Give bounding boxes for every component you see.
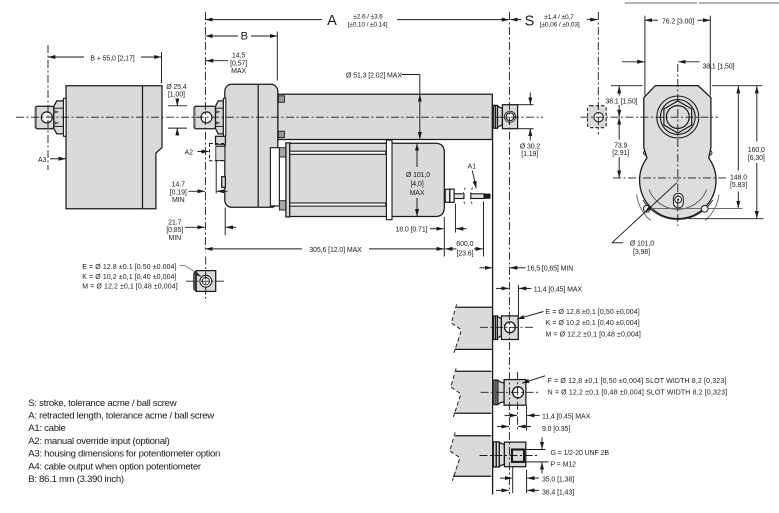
svg-text:A3: A3	[38, 157, 47, 164]
svg-text:160,0: 160,0	[748, 147, 765, 154]
manual override tab on housing	[222, 177, 226, 188]
svg-text:[4,0]: [4,0]	[410, 181, 423, 188]
svg-text:G = 1/2-20 UNF 2B: G = 1/2-20 UNF 2B	[551, 450, 610, 457]
svg-text:76.2 [3.00]: 76.2 [3.00]	[662, 19, 694, 26]
svg-text:21.7: 21.7	[168, 219, 181, 226]
front view horizontal centerline hex	[581, 116, 719, 118]
svg-text:Ø 51,3 [2.02] MAX: Ø 51,3 [2.02] MAX	[346, 72, 402, 79]
svg-text:E = Ø 12,8 ±0,1 [0,50 ±0,004]: E = Ø 12,8 ±0,1 [0,50 ±0,004]	[546, 309, 640, 316]
leader arrowhead into square	[195, 271, 202, 277]
dimension diameter 101,0 motor	[406, 143, 430, 216]
rod face extension line full height	[492, 105, 494, 494]
svg-text:14,5: 14,5	[232, 53, 245, 60]
leader to square	[180, 266, 197, 273]
dimension B	[205, 30, 277, 80]
tapped hole G/P	[512, 450, 524, 462]
slotted head v2	[504, 380, 526, 406]
rings v2	[494, 380, 496, 405]
dimension 600,0 cable	[445, 202, 483, 258]
square crosshair	[186, 280, 224, 282]
gearbox housing	[225, 84, 278, 207]
motor tie rod top	[290, 151, 386, 154]
dimension 76.2	[645, 16, 710, 96]
motor front ring	[286, 143, 290, 217]
svg-text:A1: cable: A1: cable	[28, 423, 65, 434]
dimension B + 55,0	[48, 52, 162, 83]
svg-text:M = Ø 12,2 ±0,1 [0,48 ±0,004]: M = Ø 12,2 ±0,1 [0,48 ±0,004]	[82, 284, 177, 291]
tube clamp bolts	[278, 96, 284, 103]
svg-text:148.0: 148.0	[730, 174, 747, 181]
rod end variant 1 E/K/M	[451, 304, 543, 353]
svg-text:[0,85]: [0,85]	[166, 227, 183, 234]
front view vertical centerline	[677, 64, 679, 226]
dimension P thread	[524, 461, 549, 463]
svg-text:±2.6 / ±3.6: ±2.6 / ±3.6	[353, 14, 383, 21]
dimension 148.0	[730, 86, 747, 208]
svg-text:A1: A1	[468, 163, 477, 170]
counter bearing dashed square	[588, 106, 607, 128]
dimension 11,4 lower	[505, 414, 518, 416]
clevis hole view1	[41, 112, 52, 123]
gearbox face line	[257, 85, 259, 207]
leader v2	[522, 376, 545, 383]
motor bolt top	[279, 148, 286, 157]
dimension 38,1 top	[622, 62, 735, 71]
mounting face chord line	[648, 208, 743, 210]
svg-text:K = Ø 10,2 ±0,1 [0,40 ±0,004]: K = Ø 10,2 ±0,1 [0,40 ±0,004]	[82, 274, 176, 281]
taper v2	[498, 381, 504, 404]
svg-text:14.7: 14.7	[172, 182, 185, 189]
svg-text:36,4 [1,43]: 36,4 [1,43]	[542, 490, 574, 497]
hex nut	[664, 101, 692, 133]
svg-text:K = Ø 10,2 ±0,1 [0,40 ±0,004]: K = Ø 10,2 ±0,1 [0,40 ±0,004]	[546, 320, 640, 327]
dimension 16,5 MIN	[480, 266, 574, 273]
svg-text:[±0,06 / ±0,03]: [±0,06 / ±0,03]	[540, 22, 580, 29]
taper v1	[497, 317, 501, 338]
svg-text:600,0: 600,0	[456, 241, 473, 248]
washer view2	[223, 98, 225, 136]
piston rod end: rings	[493, 105, 495, 128]
svg-text:F = Ø 12,8 ±0,1 [0,50 ±0,004]: F = Ø 12,8 ±0,1 [0,50 ±0,004] SLOT WIDTH…	[548, 378, 727, 385]
dimension diameter 51,3	[346, 72, 420, 139]
inner arc	[649, 190, 707, 210]
E/K/M text block variant 1	[546, 309, 641, 339]
svg-text:[1.19]: [1.19]	[521, 151, 538, 158]
svg-text:E = Ø 12.8 ±0.1 [0.50 ±0.004]: E = Ø 12.8 ±0.1 [0.50 ±0.004]	[82, 264, 176, 271]
centerline vertical v2	[517, 372, 519, 430]
retaining arc bottom right	[705, 195, 719, 221]
svg-text:A2: A2	[185, 149, 194, 156]
dimension 305,6 MAX	[205, 247, 444, 254]
extension tube	[278, 94, 493, 139]
svg-text:±1,4 / ±0,7: ±1,4 / ±0,7	[544, 14, 574, 21]
dimension 14,7 MIN	[170, 161, 228, 205]
rod broken shaft v3	[450, 436, 492, 477]
svg-text:M = Ø 12,2 ±0,1 [0,48 ±0,004]: M = Ø 12,2 ±0,1 [0,48 ±0,004]	[546, 332, 641, 339]
centerline v3	[480, 455, 539, 457]
svg-text:[23.6]: [23.6]	[457, 250, 474, 257]
svg-text:A: retracted length, tolerance: A: retracted length, tolerance acme / ba…	[28, 411, 214, 422]
svg-text:A: A	[327, 13, 337, 29]
svg-text:[5.83]: [5.83]	[730, 182, 747, 189]
svg-text:[6,30]: [6,30]	[748, 155, 765, 162]
dimension A	[205, 13, 509, 29]
rod broken shaft v2	[451, 371, 492, 413]
dimension diameter 101,0 front leader	[612, 183, 677, 256]
legend text block	[28, 398, 220, 485]
dimension S	[510, 14, 597, 30]
motor adapter plate	[270, 148, 279, 206]
bottom screw washer	[673, 193, 683, 208]
svg-text:11,4 [0,45] MAX: 11,4 [0,45] MAX	[542, 414, 591, 421]
svg-text:A3: housing dimensions for pot: A3: housing dimensions for potentiometer…	[28, 449, 220, 460]
table border line top right	[625, 2, 779, 4]
svg-text:S: stroke, tolerance acme / ba: S: stroke, tolerance acme / ball screw	[28, 398, 176, 409]
threaded cylinder v3	[504, 442, 525, 467]
svg-text:35,0 [1,38]: 35,0 [1,38]	[542, 477, 574, 484]
svg-text:11,4 [0,45] MAX: 11,4 [0,45] MAX	[534, 286, 583, 293]
dimension 38,1 left	[606, 86, 643, 117]
taper v3	[499, 443, 504, 467]
housing body A3	[66, 86, 162, 209]
dimension diameter 30.2 rod end	[518, 93, 541, 159]
square hole	[200, 275, 212, 287]
dimension 9.0	[497, 426, 509, 428]
front housing body	[640, 86, 716, 219]
svg-text:MAX: MAX	[410, 190, 425, 197]
housing face line	[142, 86, 144, 209]
dimension 11,4 MAX upper	[496, 285, 582, 316]
svg-text:MIN: MIN	[169, 235, 182, 242]
centerline v1	[480, 326, 535, 328]
svg-text:MAX: MAX	[231, 68, 246, 75]
svg-text:B: B	[241, 30, 248, 42]
svg-text:73.9: 73.9	[614, 142, 627, 149]
svg-text:A2: manual override input (opt: A2: manual override input (optional)	[28, 436, 169, 447]
centerline vertical S datum	[508, 12, 510, 494]
piston rod end: clevis head	[502, 105, 517, 129]
rod end variant 3 G/P threaded	[450, 432, 549, 493]
svg-text:Ø 25,4: Ø 25,4	[166, 84, 187, 91]
motor bolt bottom	[279, 201, 286, 210]
svg-text:[3,98]: [3,98]	[633, 249, 650, 256]
clevis head v1	[501, 316, 518, 340]
svg-text:38,1 [1,50]: 38,1 [1,50]	[606, 98, 638, 105]
motor body	[290, 143, 445, 216]
cable A1	[454, 194, 464, 199]
svg-text:305,6 [12.0] MAX: 305,6 [12.0] MAX	[309, 247, 362, 254]
dimension 73.9	[612, 117, 629, 177]
E/K/M mounting square mid-left	[180, 257, 225, 303]
front view horizontal centerline motor	[613, 177, 728, 179]
svg-text:B + 55,0 [2,17]: B + 55,0 [2,17]	[90, 55, 134, 62]
square side face	[194, 271, 197, 292]
motor flange plate	[386, 140, 392, 220]
centerline vertical A datum	[204, 12, 206, 253]
dimension diameter 25,4	[166, 84, 187, 136]
dimension 18.0	[396, 204, 467, 257]
centerline horizontal main	[16, 116, 543, 118]
cable break symbol	[463, 188, 465, 206]
retaining arc bottom left	[637, 195, 651, 221]
square body	[196, 271, 216, 292]
centerline vertical view1 clevis	[47, 45, 49, 170]
svg-text:38,1 [1,50]: 38,1 [1,50]	[703, 64, 735, 71]
bottom left hole	[643, 205, 650, 212]
clevis block view1	[35, 106, 54, 128]
dimension 14,5 MAX	[206, 53, 247, 75]
bottom right hole	[701, 205, 708, 212]
svg-text:[1,00]: [1,00]	[168, 92, 185, 99]
svg-text:[0.19]: [0.19]	[170, 189, 187, 196]
F/N text block variant 2	[548, 378, 728, 396]
front view of actuator	[581, 64, 743, 226]
bottom screw	[675, 196, 682, 203]
svg-text:N = Ø 12,2 ±0,1 [0,48 ±0,004]: N = Ø 12,2 ±0,1 [0,48 ±0,004] SLOT WIDTH…	[548, 389, 728, 396]
svg-text:[2.91]: [2.91]	[612, 150, 629, 157]
hex nut boss outer circles	[657, 96, 699, 138]
clevis block view2	[194, 106, 216, 128]
rings v1	[493, 316, 495, 340]
svg-text:P = M12: P = M12	[551, 462, 577, 469]
svg-text:9.0 [0.35]: 9.0 [0.35]	[542, 426, 570, 433]
outer rim arc bottom	[643, 200, 713, 220]
clevis hole view2	[201, 112, 212, 123]
dimension 35,0	[500, 477, 512, 479]
svg-text:Ø 30.2: Ø 30.2	[520, 143, 541, 150]
front housing ears	[644, 150, 649, 155]
cable gland	[445, 189, 450, 202]
centerline v2	[481, 391, 540, 393]
dimension G thread	[526, 449, 546, 451]
svg-text:MIN: MIN	[172, 197, 185, 204]
dimension 21,7 MIN	[166, 208, 236, 243]
washer view1	[64, 98, 67, 136]
leader v1	[517, 312, 544, 320]
svg-text:16,5 [0,65] MIN: 16,5 [0,65] MIN	[527, 266, 573, 273]
svg-text:[0,57]: [0,57]	[230, 60, 247, 67]
A2 dashed box	[210, 144, 225, 161]
E/K/M text block left	[82, 264, 177, 291]
rings v3	[493, 442, 496, 467]
mount tab below washer	[216, 136, 226, 145]
dimension 160,0	[689, 86, 765, 219]
rod broken shaft v1	[451, 307, 492, 349]
svg-text:[±0.10 / ±0.14]: [±0.10 / ±0.14]	[348, 21, 388, 28]
piston rod end: taper	[498, 106, 503, 127]
hex nut view1	[54, 101, 64, 134]
svg-text:Ø 101,0: Ø 101,0	[630, 240, 654, 247]
svg-text:B: 86.1 mm (3.390 inch): B: 86.1 mm (3.390 inch)	[28, 474, 124, 485]
dimension 36,4	[496, 489, 509, 491]
motor tie rod bottom	[290, 203, 386, 206]
rod end variant 2 F/N slotted	[451, 368, 545, 430]
hex nut view2	[216, 101, 224, 134]
view1: rear housing with potentiometer option	[35, 86, 162, 209]
svg-text:Ø 101,0: Ø 101,0	[406, 172, 430, 179]
view2: main actuator side view	[185, 84, 518, 219]
svg-text:A4: cable output when option p: A4: cable output when option potentiomet…	[28, 461, 202, 472]
svg-text:S: S	[525, 14, 535, 30]
cable end	[471, 194, 484, 199]
centerline vertical stroke end	[597, 12, 599, 135]
svg-text:18.0 [0.71]: 18.0 [0.71]	[396, 226, 428, 233]
hex inner circle	[666, 106, 689, 129]
